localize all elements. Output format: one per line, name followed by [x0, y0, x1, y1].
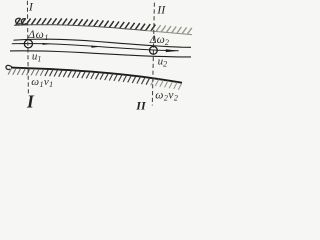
section circle 2 (area Δω₂)	[150, 46, 158, 54]
top wall hatching (dark)	[16, 18, 156, 31]
svg-text:I: I	[26, 92, 35, 112]
top wall line (right, faint)	[146, 31, 192, 35]
svg-text:Δω2: Δω2	[149, 34, 169, 47]
section line II-II (dash-dot vertical)	[152, 3, 154, 106]
svg-text:ω2v2: ω2v2	[155, 90, 178, 103]
bottom wall left end curl	[6, 65, 12, 69]
svg-text:ω1v1: ω1v1	[31, 76, 53, 89]
bottom wall hatching (light, right of section II)	[151, 79, 182, 90]
svg-text:Δω1: Δω1	[27, 29, 49, 42]
svg-text:u2: u2	[158, 55, 168, 68]
bottom wall hatching (dark)	[45, 70, 150, 85]
svg-text:u1: u1	[32, 50, 42, 63]
section circle 1 (area Δω₁)	[24, 40, 32, 48]
stream tube top line	[14, 39, 192, 47]
bottom wall hatching (left, faint)	[8, 68, 44, 76]
svg-text:I: I	[28, 0, 34, 13]
flow arrow 3 (outlet, right of section circle 2)	[158, 49, 179, 52]
svg-text:II: II	[135, 98, 147, 112]
bottom wall line	[11, 68, 182, 83]
top wall hatching (light, right of section II)	[156, 25, 192, 34]
stream tube bottom line	[10, 51, 191, 57]
section line I-I (dash-dot vertical)	[27, 1, 28, 95]
top wall line (left, dark)	[14, 25, 146, 31]
svg-text:II: II	[156, 2, 166, 16]
flow arrow 1	[42, 43, 51, 45]
top wall left end curl	[16, 18, 27, 24]
flow arrow 2	[91, 46, 100, 48]
stream tube axis line	[12, 44, 157, 51]
